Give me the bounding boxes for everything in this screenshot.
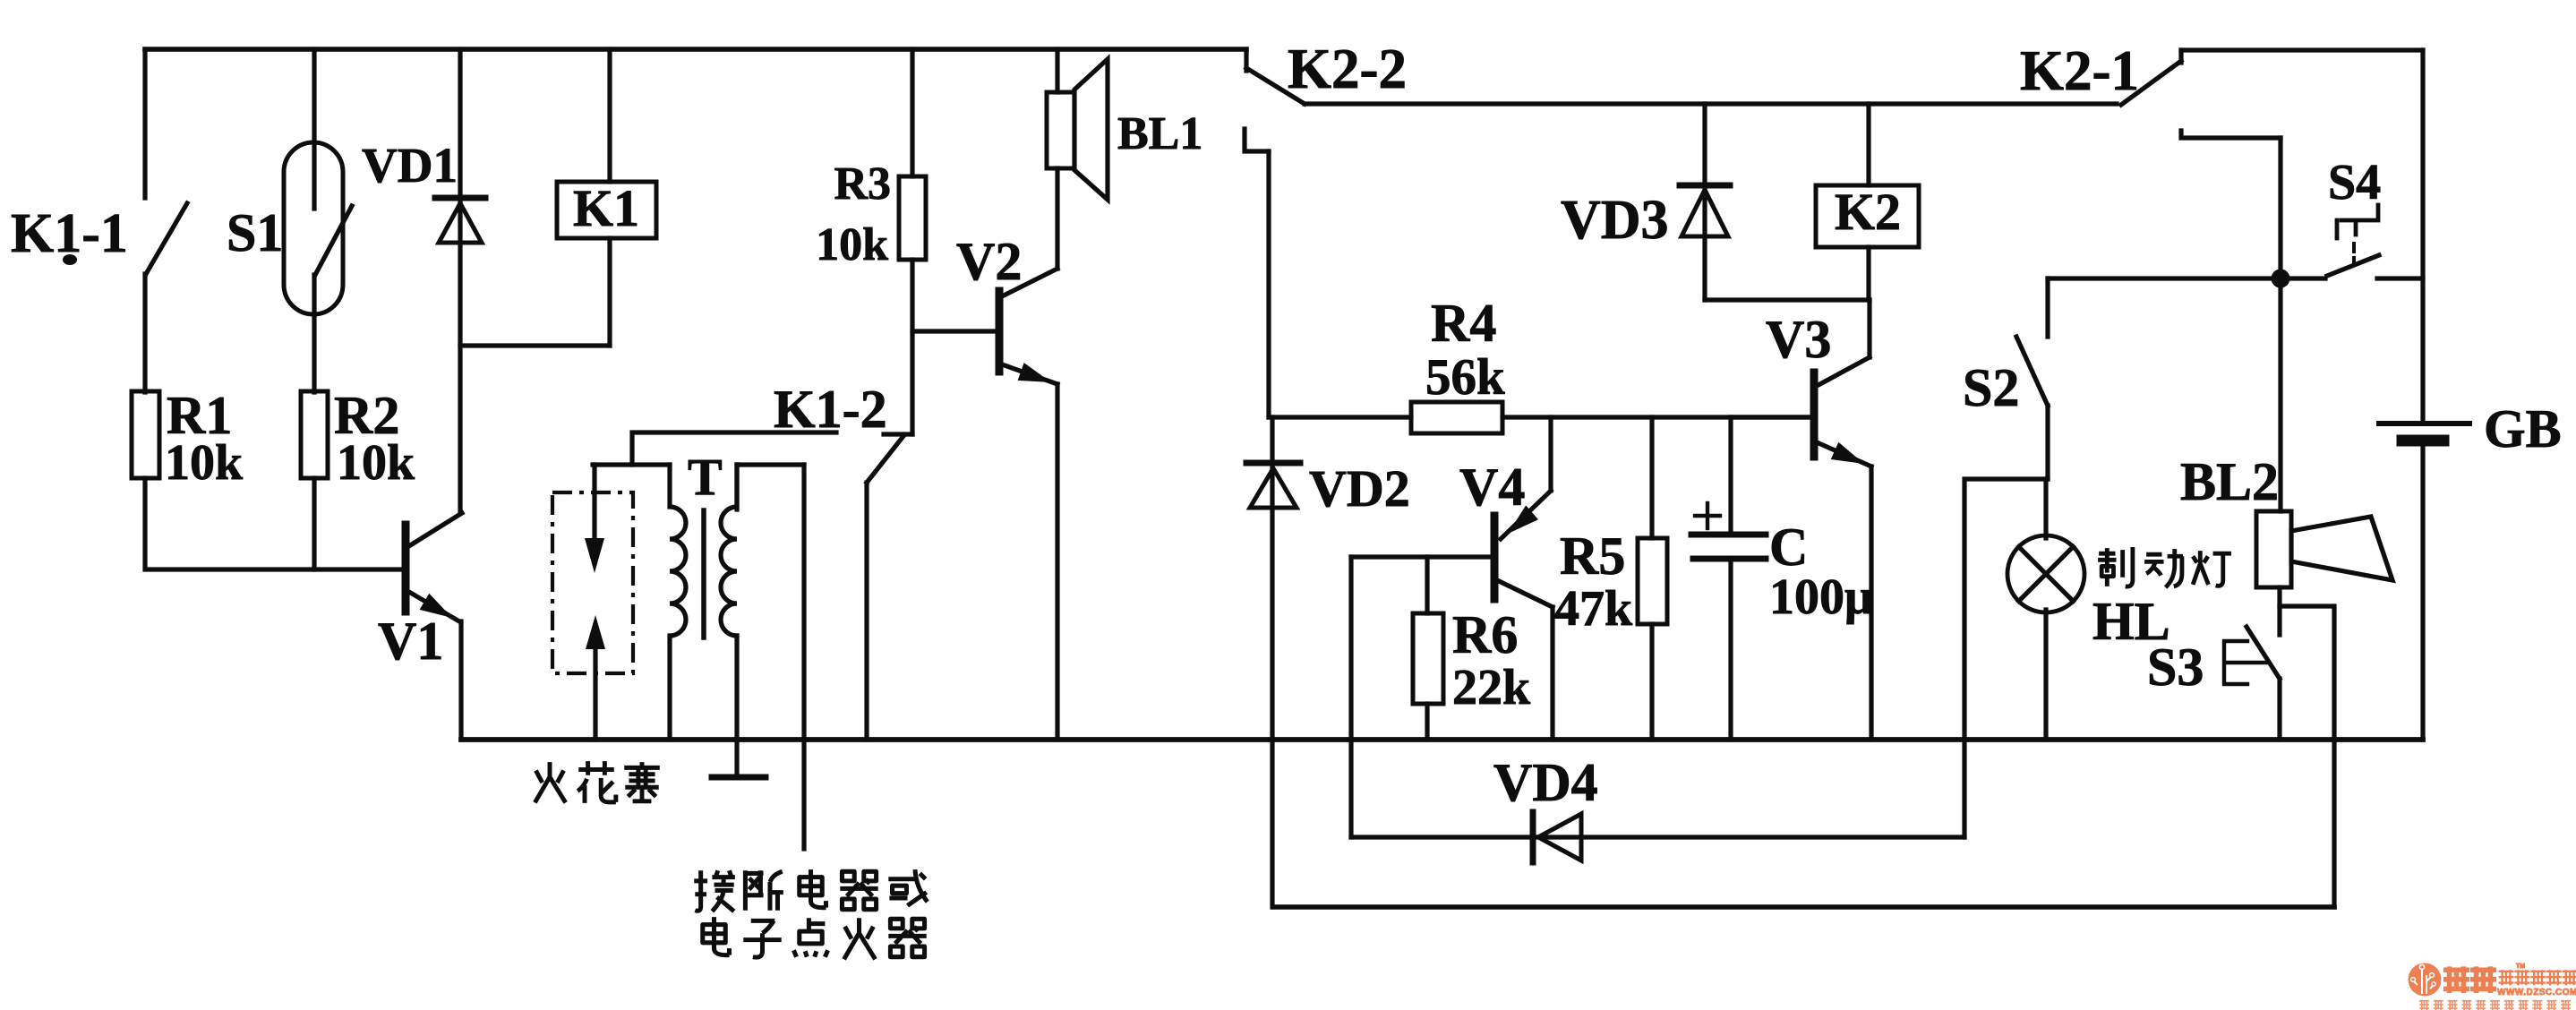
svg-text:K2: K2 xyxy=(1835,183,1901,241)
switch K2-2 (relay contact) xyxy=(1245,49,1305,151)
wire BL2 return to bottom rail xyxy=(2280,606,2334,907)
wire alarm feed (K2-1 to BL2) xyxy=(2278,138,2282,511)
diode VD1 xyxy=(435,49,485,513)
svg-text:K1: K1 xyxy=(573,179,639,237)
svg-text:BL2: BL2 xyxy=(2180,452,2279,511)
wire K1 coil to VD1 anode xyxy=(460,343,610,347)
svg-text:TM: TM xyxy=(2516,963,2525,970)
diode VD3 xyxy=(1680,104,1730,300)
relay coil K1 xyxy=(557,49,656,346)
svg-text:10k: 10k xyxy=(337,435,415,491)
svg-text:R5: R5 xyxy=(1560,526,1625,586)
svg-text:10k: 10k xyxy=(165,435,244,491)
label R3 value 10k xyxy=(816,158,891,270)
wire V4 base to VD4 rail xyxy=(1348,557,1353,837)
battery GB xyxy=(2379,50,2469,740)
wire secondary to ground xyxy=(734,636,739,775)
svg-text:K2-1: K2-1 xyxy=(2020,39,2139,102)
svg-text:WWW.DZSC.COM: WWW.DZSC.COM xyxy=(2497,988,2576,997)
label R1 value 10k xyxy=(165,386,244,491)
wire K2-2 contact to R4 node xyxy=(1266,151,1271,417)
resistor R3 xyxy=(899,49,926,434)
label 接断电器或 xyxy=(694,869,928,912)
svg-text:R4: R4 xyxy=(1431,294,1496,353)
brake lamp HL xyxy=(2007,479,2084,740)
svg-text:VD1: VD1 xyxy=(362,138,458,193)
svg-text:R6: R6 xyxy=(1452,605,1518,664)
wire bottom feedback rail xyxy=(1273,904,2334,910)
svg-text:BL1: BL1 xyxy=(1117,108,1202,159)
svg-text:K1-2: K1-2 xyxy=(774,380,887,439)
svg-text:C: C xyxy=(1769,518,1808,577)
relay coil K2 xyxy=(1816,104,1919,300)
svg-text:T: T xyxy=(688,448,723,506)
wire V3 emitter to ground bus xyxy=(1869,466,1873,740)
diode VD4 with rail xyxy=(1351,812,1964,862)
svg-text:VD2: VD2 xyxy=(1309,459,1410,518)
label C value 100u xyxy=(1769,518,1873,625)
label K1-1 xyxy=(11,203,128,265)
capacitor C (electrolytic) xyxy=(1691,417,1766,740)
speaker BL1 xyxy=(1047,49,1108,200)
wire R1 bottom to V1 base node xyxy=(145,478,403,569)
transistor V1 (PNP, oscillator) xyxy=(406,513,462,621)
label 电子点火器 xyxy=(703,917,927,959)
switch K1-2 (relay contact) xyxy=(632,432,912,740)
svg-text:V1: V1 xyxy=(378,612,443,671)
watermark 专业电子元器件交易网站 xyxy=(2419,1000,2571,1010)
wire V2 emitter to ground bus xyxy=(1055,384,1059,740)
svg-text:S2: S2 xyxy=(1963,358,2019,417)
wire battery positive rail xyxy=(2181,47,2423,52)
svg-text:S3: S3 xyxy=(2147,638,2204,697)
label R4 value 56k xyxy=(1425,294,1505,406)
switch S3 (brake pedal switch) xyxy=(2224,627,2280,740)
transformer core xyxy=(701,510,706,638)
ground symbol xyxy=(712,775,766,781)
wire to breaker / igniter xyxy=(801,465,806,849)
svg-text:S1: S1 xyxy=(227,203,283,262)
label R6 value 22k xyxy=(1452,605,1531,715)
wire lamp feed rail xyxy=(2048,276,2325,280)
switch S2 xyxy=(2016,278,2048,479)
spark plug electrode arrows xyxy=(585,465,605,740)
junction dot xyxy=(2272,270,2290,288)
resistor R4 xyxy=(1269,402,1812,433)
switch K1-1 (relay contact) xyxy=(145,49,187,392)
wire R2 bottom to V1 base node xyxy=(312,478,316,569)
svg-text:47k: 47k xyxy=(1554,581,1633,637)
svg-text:VD3: VD3 xyxy=(1561,190,1669,251)
svg-text:10k: 10k xyxy=(816,219,888,270)
svg-text:VD4: VD4 xyxy=(1493,753,1598,812)
svg-text:22k: 22k xyxy=(1452,660,1531,715)
svg-text:S4: S4 xyxy=(2328,155,2381,210)
transistor V3 (NPN) xyxy=(1731,300,1871,466)
transformer T primary winding xyxy=(593,465,686,740)
label 制动灯 xyxy=(2098,547,2231,587)
svg-text:GB: GB xyxy=(2484,399,2562,458)
wire S2 to VD4 rail xyxy=(1964,479,2048,837)
svg-text:100μ: 100μ xyxy=(1769,569,1873,625)
resistor R2 xyxy=(301,391,328,478)
svg-text:K2-2: K2-2 xyxy=(1288,38,1407,100)
watermark 维库 电子市场网 TM xyxy=(2443,963,2576,993)
wire V2 collector to BL1 xyxy=(1055,168,1059,269)
transistor V4 (PNP) xyxy=(1351,417,1553,607)
resistor R1 xyxy=(132,391,159,478)
tilt switch S1 xyxy=(284,49,352,392)
spark plug dash-dot housing xyxy=(552,492,633,673)
svg-text:56k: 56k xyxy=(1425,349,1505,406)
transformer T secondary winding xyxy=(721,465,804,636)
wire V4 collector to ground bus xyxy=(1550,607,1554,740)
wire main ground bus xyxy=(461,737,2423,742)
diode VD2 xyxy=(1246,417,1300,907)
transistor V2 (NPN driver) xyxy=(999,269,1057,384)
watermark logo circle xyxy=(2409,963,2442,997)
label R2 value 10k xyxy=(334,386,415,491)
svg-text:V4: V4 xyxy=(1459,458,1525,517)
wire V1 emitter to ground bus xyxy=(458,621,463,740)
switch K2-1 (relay contact) xyxy=(2121,50,2281,138)
svg-text:V2: V2 xyxy=(956,232,1022,291)
resistor R6 xyxy=(1413,557,1443,740)
speaker BL2 xyxy=(2256,511,2392,635)
label R5 value 47k xyxy=(1554,526,1633,637)
wire top supply rail xyxy=(145,47,1246,52)
svg-text:V3: V3 xyxy=(1766,310,1831,369)
wire VD3 to K2 node xyxy=(1705,297,1870,302)
wire K2 control rail xyxy=(1305,101,2117,106)
wire R3 to V2 base xyxy=(912,329,997,333)
switch S4 (pull switch) xyxy=(2327,205,2423,278)
svg-text:R3: R3 xyxy=(834,158,891,210)
resistor R5 xyxy=(1638,417,1667,740)
label spark plug 火花塞 xyxy=(535,761,659,803)
